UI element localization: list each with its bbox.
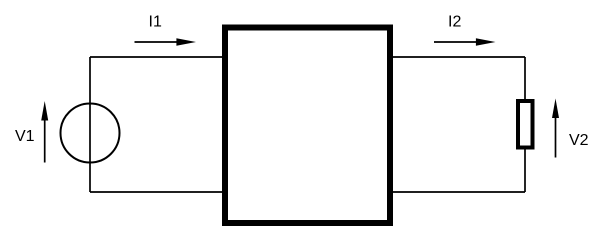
voltage source V1 (circle) — [61, 104, 120, 163]
wire left vertical (through source V1) — [89, 57, 91, 192]
svg-text:V1: V1 — [15, 128, 35, 145]
current arrow I2 — [434, 38, 496, 46]
wire bottom-left (source to box, node 1') — [90, 191, 223, 193]
voltage arrow V2 — [552, 99, 559, 158]
current arrow I1 — [135, 38, 197, 46]
resistor (load) — [518, 101, 533, 148]
svg-text:V2: V2 — [569, 132, 589, 149]
voltage arrow V1 — [41, 101, 48, 163]
svg-text:I1: I1 — [149, 14, 162, 31]
wire right vertical (through load resistor) — [524, 57, 526, 192]
wire bottom-right (box to load, node 2') — [392, 191, 525, 193]
svg-text:I2: I2 — [448, 14, 461, 31]
wire top-right (box to load, node 2) — [392, 56, 525, 58]
wire top-left (source to box, node 1) — [90, 56, 223, 58]
two-port network box — [225, 28, 390, 224]
